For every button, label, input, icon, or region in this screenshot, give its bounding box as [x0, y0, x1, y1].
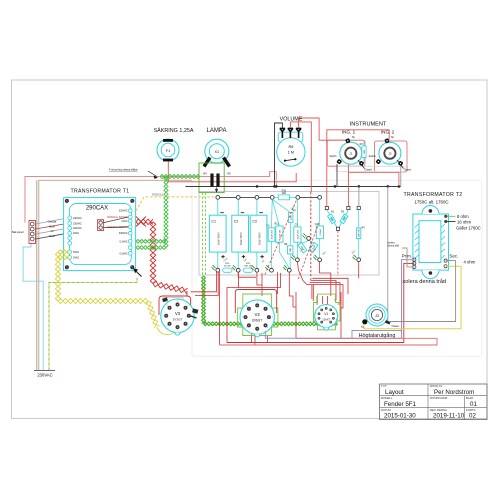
- svg-text:Fender 5F1: Fender 5F1: [384, 401, 417, 408]
- svg-text:230VAC: 230VAC: [73, 222, 82, 225]
- label LAMPA: [207, 128, 227, 134]
- chassis plate outline (gray): [192, 180, 482, 356]
- green value 68K: [322, 251, 327, 255]
- svg-text:22uF 25V: 22uF 25V: [297, 229, 299, 239]
- tube V3: [161, 299, 194, 335]
- svg-text:V1: V1: [324, 312, 328, 316]
- board top rail: [218, 196, 320, 198]
- svg-text:X1: X1: [214, 150, 219, 154]
- label Bak.panel: [12, 230, 24, 234]
- wire volume red B: [299, 118, 348, 140]
- svg-text:BLAD: BLAD: [466, 396, 473, 400]
- svg-text:25uF 25V: 25uF 25V: [271, 229, 273, 239]
- svg-text:220VAC: 220VAC: [73, 227, 82, 230]
- svg-text:5VAC: 5VAC: [73, 251, 79, 254]
- green value 10K: [243, 258, 248, 262]
- volume lug 298.6: [296, 128, 301, 138]
- svg-text:1K 2W: 1K 2W: [224, 265, 231, 267]
- svg-text:Chassi: Chassi: [404, 169, 412, 172]
- bus junction 335: [334, 185, 337, 188]
- green value 820: [312, 248, 317, 252]
- wire T2 prim purple: [265, 260, 414, 339]
- svg-text:0,02uF: 0,02uF: [320, 228, 322, 235]
- svg-text:V2: V2: [255, 312, 261, 317]
- svg-text:Gäller 1760C: Gäller 1760C: [456, 225, 481, 230]
- wire svart: [36, 233, 68, 239]
- tube V2 red loop: [235, 290, 276, 314]
- svg-text:4: 4: [187, 326, 188, 328]
- wire bottom red 2: [220, 338, 438, 345]
- under-board red wiring: [191, 262, 359, 345]
- svg-text:16uF 450V: 16uF 450V: [239, 232, 243, 245]
- svg-text:1 M: 1 M: [288, 150, 294, 154]
- svg-text:1750C alt. 1760C: 1750C alt. 1760C: [414, 200, 448, 205]
- title block: [380, 384, 487, 420]
- rail node 217.8: [216, 196, 220, 200]
- svg-text:R5: R5: [227, 172, 231, 176]
- rectifier tube V3 red loop: [159, 291, 191, 315]
- svg-text:16uF 450V: 16uF 450V: [217, 232, 221, 245]
- svg-text:2: 2: [187, 305, 188, 307]
- dashed red 3: [337, 231, 339, 277]
- svg-text:0VAC: 0VAC: [122, 220, 128, 223]
- wire volume red A: [290, 122, 311, 192]
- label ING2: [381, 130, 395, 135]
- fuse F1: [157, 139, 179, 161]
- svg-text:FORTS.: FORTS.: [466, 408, 476, 412]
- svg-text:REV. DENNA: REV. DENNA: [430, 408, 447, 412]
- capacitor C3: [250, 199, 267, 268]
- svg-text:C1: C1: [211, 219, 216, 223]
- wire mains brown: [36, 180, 38, 370]
- svg-text:6,3VAC: 6,3VAC: [120, 240, 128, 243]
- svg-text:20K: 20K: [282, 192, 287, 195]
- jack J3: [361, 304, 399, 329]
- rail node 238.2: [236, 196, 240, 200]
- svg-text:Vit: Vit: [51, 229, 54, 233]
- svg-text:4: 4: [267, 327, 268, 329]
- svg-text:12AX7: 12AX7: [322, 318, 330, 322]
- svg-text:6: 6: [332, 307, 333, 309]
- svg-text:2: 2: [267, 306, 268, 308]
- label SAKRING: [154, 127, 194, 134]
- wire fuse red: [168, 162, 296, 182]
- svg-text:7: 7: [242, 317, 243, 319]
- green value 1W: [261, 260, 266, 264]
- label INSTRUMENT: [350, 122, 387, 128]
- svg-text:6,3VAC: 6,3VAC: [120, 252, 128, 255]
- green value 16R: [351, 250, 356, 254]
- svg-text:0VAC: 0VAC: [73, 232, 79, 235]
- svg-text:2: 2: [315, 319, 316, 321]
- svg-text:INSTRUMENT: INSTRUMENT: [350, 122, 387, 128]
- wire vit: [36, 228, 68, 234]
- rail node 256.9: [255, 196, 259, 200]
- wire brun: [36, 223, 68, 229]
- transformer T1: [64, 198, 136, 271]
- volume pot R6: [277, 132, 305, 166]
- wire J2 chassi gray: [400, 166, 402, 187]
- wire J3 gray chassis: [387, 186, 389, 321]
- heater run dashed green: [203, 193, 206, 277]
- wire RODGUL yellow dashed: [136, 192, 218, 210]
- board node 256.9,270.2: [251, 265, 259, 272]
- wire J1 switch black: [336, 164, 338, 186]
- volume lug 282.4: [280, 128, 285, 138]
- dashed red pair: [310, 192, 312, 283]
- svg-text:6: 6: [246, 327, 247, 329]
- svg-text:240VAC: 240VAC: [73, 217, 82, 220]
- svg-text:R11: R11: [275, 223, 280, 226]
- wire J1 red down: [347, 165, 349, 207]
- lamp X1: [204, 139, 230, 166]
- svg-text:C2: C2: [234, 219, 239, 223]
- green value 220K: [290, 206, 296, 211]
- dashed red 2: [298, 222, 319, 279]
- heater run thick green: [202, 276, 338, 326]
- mains red wire path: [25, 172, 276, 223]
- svg-text:8: 8: [336, 319, 337, 321]
- volume lug 290.4: [288, 128, 293, 138]
- bus junction 387.8: [387, 185, 390, 188]
- label Isolera denna trad: [401, 278, 446, 285]
- svg-text:Bak.panel: Bak.panel: [12, 230, 24, 234]
- tube V1 green box: [314, 294, 341, 330]
- wire earth yellow-green: [49, 278, 137, 371]
- svg-text:220K: 220K: [291, 214, 293, 220]
- drawing frame: [12, 80, 488, 419]
- wire J2 tip red: [327, 130, 389, 207]
- board node 289.3,270.2: [283, 265, 291, 272]
- svg-text:DATUM: DATUM: [381, 408, 391, 412]
- resistor R13: [223, 263, 232, 272]
- ground arrow T1: [133, 268, 142, 276]
- svg-text:Tvinna ihop dessa trådar: Tvinna ihop dessa trådar: [109, 168, 138, 172]
- dashed red 1: [265, 200, 297, 275]
- svg-text:2019-11-10: 2019-11-10: [433, 413, 465, 420]
- svg-text:Isolera denna tråd: Isolera denna tråd: [401, 278, 446, 285]
- svg-text:8 ohm: 8 ohm: [457, 214, 469, 219]
- label Hogtalarutgang: [359, 332, 396, 339]
- svg-text:1: 1: [257, 302, 258, 304]
- svg-text:68K: 68K: [364, 149, 366, 153]
- svg-text:5Y3GT: 5Y3GT: [173, 317, 183, 321]
- red loop jack J2: [375, 141, 408, 172]
- svg-text:5: 5: [326, 305, 327, 307]
- capacitor C1: [209, 199, 226, 268]
- board node 271.5,270.2: [265, 265, 273, 272]
- svg-text:R6: R6: [288, 145, 293, 149]
- resistor R1 R2: [325, 206, 360, 230]
- wire mains gray: [39, 180, 192, 370]
- svg-text:10K 1W: 10K 1W: [244, 265, 253, 267]
- wire T2 sec yellow: [363, 266, 461, 329]
- capacitor C2: [232, 199, 249, 268]
- svg-text:RITAD AV: RITAD AV: [430, 384, 442, 388]
- label 16ohm: [448, 219, 472, 224]
- board node 319.6,259.8: [313, 255, 321, 262]
- label Prim: [402, 254, 412, 259]
- svg-text:02: 02: [469, 413, 476, 420]
- svg-text:J1: J1: [349, 152, 353, 156]
- svg-text:Chassi: Chassi: [365, 169, 373, 172]
- wire T2 sec gray: [390, 261, 456, 322]
- tube V2: [240, 300, 274, 337]
- V3 tag right: [191, 308, 199, 318]
- rail node 297.8: [296, 196, 300, 200]
- svg-text:3: 3: [315, 312, 316, 314]
- board node 297.4,259.8: [291, 255, 299, 262]
- svg-text:LAMPA: LAMPA: [207, 128, 227, 134]
- svg-text:RÖD/GUL: RÖD/GUL: [152, 192, 164, 196]
- twisted pair red HV: [136, 217, 188, 294]
- label ING1: [342, 130, 356, 135]
- wire mains blue: [23, 244, 43, 371]
- label 4ohm: [464, 259, 476, 264]
- svg-text:TRANSFORMATOR T1: TRANSFORMATOR T1: [71, 189, 130, 195]
- bus junction 398.9: [398, 185, 401, 188]
- bus junction 274.5: [273, 185, 276, 188]
- svg-text:16uF 450V: 16uF 450V: [257, 232, 261, 245]
- wire bottom red 1: [227, 342, 404, 344]
- svg-text:denna tråd: denna tråd: [388, 245, 400, 248]
- jack J1: [329, 136, 372, 171]
- svg-text:J3: J3: [375, 314, 379, 318]
- svg-text:16R 1W: 16R 1W: [359, 228, 361, 237]
- jack mounting plate: [336, 166, 407, 171]
- svg-text:7: 7: [163, 315, 164, 317]
- svg-text:6: 6: [167, 326, 168, 328]
- svg-text:290CAX: 290CAX: [86, 206, 108, 212]
- rail node 319.6: [318, 196, 322, 200]
- svg-text:Chassi: Chassi: [392, 325, 400, 328]
- svg-text:4: 4: [319, 307, 320, 309]
- component board outline: [199, 192, 379, 276]
- svg-text:MODELL: MODELL: [381, 396, 393, 400]
- svg-text:C3: C3: [252, 219, 257, 223]
- red loop jack J1: [327, 140, 365, 166]
- label 8ohm: [448, 214, 470, 219]
- gray wire bus to board: [358, 186, 360, 206]
- resistor R3: [360, 141, 367, 163]
- twisted pair yellow rectifier heater: [55, 250, 177, 335]
- label TRANSFORMATOR T2: [404, 192, 463, 205]
- green value 1,5K: [299, 248, 304, 253]
- svg-text:0VAC: 0VAC: [73, 256, 79, 259]
- jack J2: [369, 136, 412, 171]
- resistor R10: [274, 190, 296, 200]
- callout tvinna ihop dessa tradar: [109, 168, 158, 179]
- svg-text:Sec.: Sec.: [449, 254, 458, 259]
- svg-text:68K: 68K: [290, 247, 292, 251]
- bus junction 257: [256, 185, 259, 188]
- svg-text:TRANSFORMATOR T2: TRANSFORMATOR T2: [404, 192, 463, 198]
- svg-text:16 ohm: 16 ohm: [457, 219, 471, 224]
- svg-text:230VAC: 230VAC: [37, 373, 52, 378]
- label Galler 1760C: [456, 225, 481, 230]
- svg-text:8: 8: [167, 305, 168, 307]
- connector inside T1: [98, 217, 129, 231]
- board cluster: [267, 199, 366, 268]
- label TRANSFORMATOR T1: [71, 189, 130, 195]
- svg-text:5: 5: [177, 330, 178, 332]
- label VOLUME: [280, 117, 303, 123]
- bus junction 358.9: [358, 185, 361, 188]
- green value 470K: [223, 258, 229, 263]
- svg-text:RITNINGSNR: RITNINGSNR: [430, 396, 447, 400]
- bus junction 276.3: [275, 185, 278, 188]
- board node 217.8,270.2: [212, 265, 220, 272]
- svg-text:5: 5: [257, 332, 258, 334]
- board node 238.2,270.2: [232, 265, 240, 272]
- V3 tag left: [162, 297, 168, 302]
- svg-text:J2: J2: [388, 152, 392, 156]
- svg-text:Orange: Orange: [48, 220, 57, 224]
- svg-text:TYP: TYP: [381, 384, 387, 388]
- svg-text:F1: F1: [166, 149, 170, 153]
- svg-text:8: 8: [246, 306, 247, 308]
- wire J1 ground red branch: [348, 172, 399, 186]
- svg-text:Switch: Switch: [369, 155, 377, 158]
- rail node 272.2: [270, 196, 274, 200]
- label Sec: [449, 254, 458, 259]
- tube V1: [315, 305, 338, 331]
- svg-text:R4: R4: [203, 172, 207, 176]
- svg-text:Svart: Svart: [49, 234, 55, 238]
- svg-text:Per Nordstrom: Per Nordstrom: [434, 389, 474, 396]
- svg-text:1: 1: [319, 324, 320, 326]
- svg-text:Brun: Brun: [49, 224, 55, 228]
- svg-text:325VAC: 325VAC: [119, 232, 128, 235]
- transformer T2: [413, 206, 449, 279]
- connector X2 back panel: [29, 221, 36, 244]
- svg-text:V3: V3: [175, 311, 181, 316]
- svg-text:Layout: Layout: [385, 389, 404, 396]
- svg-text:1,5K 1W: 1,5K 1W: [279, 229, 281, 238]
- label isolera small: [388, 242, 400, 248]
- svg-text:SÄKRING 1,25A: SÄKRING 1,25A: [154, 127, 194, 134]
- lamp resistor box: [199, 163, 231, 193]
- svg-text:2015-01-30: 2015-01-30: [384, 413, 416, 420]
- svg-text:1: 1: [177, 301, 178, 303]
- board node 358.7,259.8: [353, 255, 361, 262]
- svg-text:Switch: Switch: [329, 155, 337, 158]
- wire orange: [36, 218, 68, 224]
- chassis bus: [186, 185, 401, 187]
- board node 308.6,238.4: [302, 233, 310, 240]
- svg-text:4 ohm: 4 ohm: [464, 259, 476, 264]
- wire T2 prim red: [404, 263, 415, 342]
- twisted pair green heater: [136, 174, 200, 249]
- svg-text:7: 7: [336, 312, 337, 314]
- svg-text:9: 9: [332, 324, 333, 326]
- svg-text:Högtalarutgång: Högtalarutgång: [359, 332, 396, 339]
- wire T2 prim brown: [402, 248, 414, 267]
- svg-text:6V6GT: 6V6GT: [252, 319, 262, 323]
- mains terminal 230VAC: [34, 371, 55, 378]
- svg-text:3: 3: [272, 317, 273, 319]
- resistor R12: [243, 263, 253, 272]
- svg-text:325VAC: 325VAC: [119, 210, 128, 213]
- tube V2 green box: [238, 294, 278, 336]
- svg-text:01: 01: [470, 401, 477, 408]
- wire volume black: [275, 123, 283, 186]
